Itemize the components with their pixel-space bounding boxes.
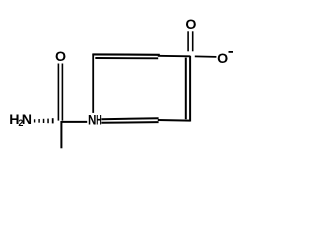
svg-text:H: H bbox=[96, 112, 101, 128]
label O- (carboxylate anionic oxygen) bbox=[217, 51, 233, 67]
svg-text:N: N bbox=[88, 112, 96, 128]
double bond C1=O (left carbonyl) bbox=[58, 64, 62, 121]
svg-text:O: O bbox=[185, 17, 196, 33]
label NH (amide nitrogen) bbox=[88, 112, 102, 128]
single bond ring top-right segment bbox=[158, 55, 191, 58]
single bond ring bottom-right segment bbox=[158, 119, 190, 122]
double bond ring right edge bbox=[186, 56, 190, 122]
double bond carboxylate C=O bbox=[188, 31, 193, 51]
svg-text:N: N bbox=[22, 112, 32, 128]
svg-text:O: O bbox=[217, 51, 228, 67]
bond carboxylate C to O minus bbox=[195, 55, 217, 58]
bond stereocenter C2 to methyl CH3 bbox=[60, 121, 62, 148]
hashed wedge bond H2N to stereocenter C2 bbox=[34, 118, 54, 123]
double bond ring bottom edge (from NH) bbox=[101, 118, 158, 123]
wire ring left edge: single bond N to ring C(top-left) bbox=[92, 54, 94, 113]
label H2N (amine nitrogen) bbox=[9, 112, 32, 128]
bond carbonyl C1 to amide N bbox=[62, 121, 88, 123]
svg-text:O: O bbox=[55, 49, 66, 65]
double bond ring top edge bbox=[92, 54, 159, 58]
